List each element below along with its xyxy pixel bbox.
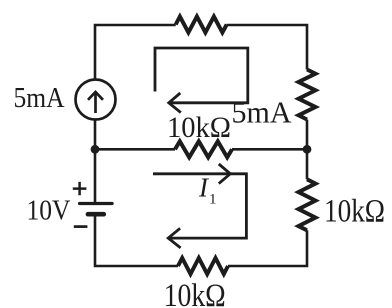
svg-text:5mA: 5mA (14, 83, 65, 114)
battery V1 long plate (+) (80, 202, 113, 205)
wire right rail between middle node and lower resistor (306, 149, 309, 179)
resistor R-bottom 10kΩ (horizontal zigzag, bottom wire) (178, 258, 228, 274)
minus sign of battery (74, 225, 88, 228)
mesh loop arrow 5mA (clockwise, under top resistor) (155, 48, 248, 103)
wire right rail lower to bottom-right corner then left (228, 230, 307, 266)
plus sign of battery (73, 182, 87, 195)
wire from battery long plate up to middle node (94, 149, 97, 203)
wire right rail between upper resistor and middle node (306, 120, 309, 150)
resistor R-right-upper (vertical zigzag, right rail) (299, 70, 316, 120)
current source arrow (up) (94, 92, 97, 113)
svg-text:10kΩ: 10kΩ (324, 194, 385, 230)
svg-text:10kΩ: 10kΩ (167, 111, 231, 144)
mesh loop arrow I1 (clockwise, under middle resistor) (153, 174, 246, 238)
wire middle left segment (node to middle resistor) (95, 148, 175, 151)
wire top-right from resistor to right rail corner (227, 25, 307, 70)
wire bottom-left from resistor to corner and up to battery (95, 216, 178, 267)
wire middle right segment (resistor to right node) (232, 148, 307, 151)
battery V1 short plate (−) (88, 212, 104, 217)
current source 5mA (circle) (76, 80, 116, 120)
svg-text:10kΩ: 10kΩ (164, 278, 226, 308)
resistor R-top (horizontal zigzag, top wire) (176, 17, 227, 33)
node right-middle (303, 145, 312, 154)
resistor R-middle 10kΩ (horizontal zigzag, middle wire) (175, 141, 232, 157)
node left-middle (91, 145, 100, 154)
svg-text:1: 1 (209, 192, 217, 208)
wire from current source bottom down to middle node (94, 120, 97, 150)
wire top-left from current source up and right to top resistor (95, 25, 176, 80)
svg-text:10V: 10V (27, 196, 71, 227)
resistor R-right-lower 10kΩ (vertical zigzag) (299, 179, 316, 230)
svg-text:5mA: 5mA (232, 95, 293, 130)
